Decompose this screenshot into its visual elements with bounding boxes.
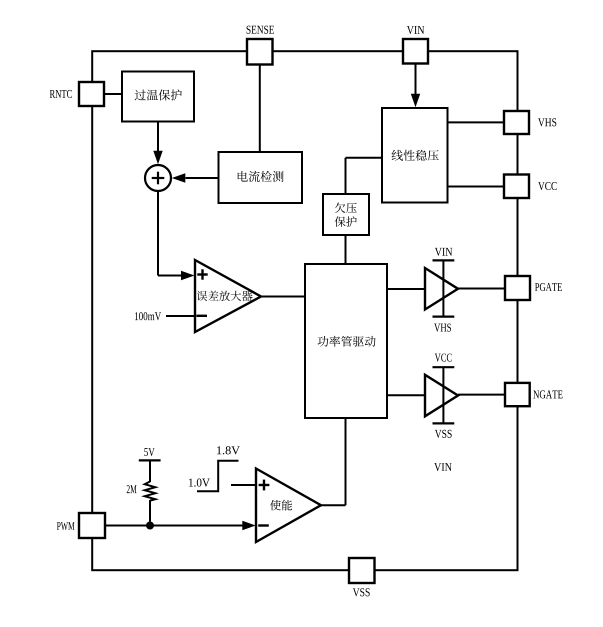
wire current-sense to summing node with arrowhead xyxy=(172,173,219,182)
label 2M xyxy=(127,485,137,493)
5V supply bar xyxy=(139,459,161,461)
wire driver to NGATE buffer xyxy=(387,394,425,396)
power rail label VCC above NGATE buffer xyxy=(435,354,452,362)
power rail label VHS below PGATE buffer xyxy=(434,324,451,332)
block overtemp protection 过温保护 xyxy=(122,72,194,122)
wire enable + input stub xyxy=(231,484,256,486)
wire error-amp output to driver block xyxy=(261,296,305,298)
pin VCC xyxy=(504,175,557,199)
wire PGATE buffer output to PGATE pin xyxy=(458,288,505,290)
wire NGATE buffer output to NGATE pin xyxy=(458,394,505,396)
label 100mV reference xyxy=(135,312,161,320)
pin PWM xyxy=(57,513,105,538)
power rail label VSS below NGATE buffer xyxy=(435,430,452,438)
label 1.0V xyxy=(189,479,210,487)
block linear regulator 线性稳压 xyxy=(382,108,448,203)
block power FET driver 功率管驱动 xyxy=(305,264,387,418)
wire PWM pin to enable - input with arrowhead xyxy=(105,521,256,530)
wire linear-regulator to VHS pin xyxy=(448,121,505,123)
wire driver to PGATE buffer xyxy=(387,288,425,290)
power rail label VIN above PGATE buffer xyxy=(435,248,452,256)
pin VHS xyxy=(504,111,556,134)
label 5V xyxy=(144,448,154,456)
wire driver bottom down to enable output node xyxy=(345,418,347,505)
wire resistor bottom to PWM wire xyxy=(149,500,151,522)
pin SENSE xyxy=(247,26,274,65)
buffer PGATE driver xyxy=(425,260,458,316)
block current sense 电流检测 xyxy=(219,152,303,203)
resistor R 2M zigzag xyxy=(145,482,156,501)
net label VIN lower right xyxy=(434,463,452,471)
summing node circle with plus xyxy=(145,165,171,191)
wire UVLO down to driver block xyxy=(345,235,347,264)
pin PGATE xyxy=(505,276,562,300)
wire linear-regulator left to UVLO block xyxy=(346,158,383,194)
chip outline border xyxy=(92,51,517,570)
wire 5V bar to resistor xyxy=(149,460,151,482)
wire 100mV to error-amp - input xyxy=(166,315,195,317)
label 1.8V xyxy=(217,446,240,454)
wire VIN pin down into linear-regulator with arrowhead xyxy=(411,63,420,107)
junction dot on PWM wire xyxy=(146,522,154,530)
pin RNTC xyxy=(50,82,104,106)
wire overtemp to summing node with arrowhead xyxy=(153,122,162,165)
wire linear-regulator to VCC pin xyxy=(448,186,505,188)
wire SENSE pin down to current-sense block xyxy=(259,64,261,152)
buffer NGATE driver xyxy=(425,367,458,423)
block UVLO 欠压保护 xyxy=(323,194,369,235)
wire RNTC to overtemp block xyxy=(104,93,122,95)
op-amp error amplifier 误差放大器 xyxy=(195,260,261,332)
wire enable output to node xyxy=(321,504,346,506)
wire summing node down and right to error-amp + input with arrowhead xyxy=(158,192,195,281)
pin NGATE xyxy=(505,383,563,406)
pin VSS bottom xyxy=(349,558,375,596)
comparator enable 使能 xyxy=(256,469,321,543)
threshold step waveform symbol xyxy=(197,461,239,492)
pin VIN top xyxy=(403,26,428,64)
